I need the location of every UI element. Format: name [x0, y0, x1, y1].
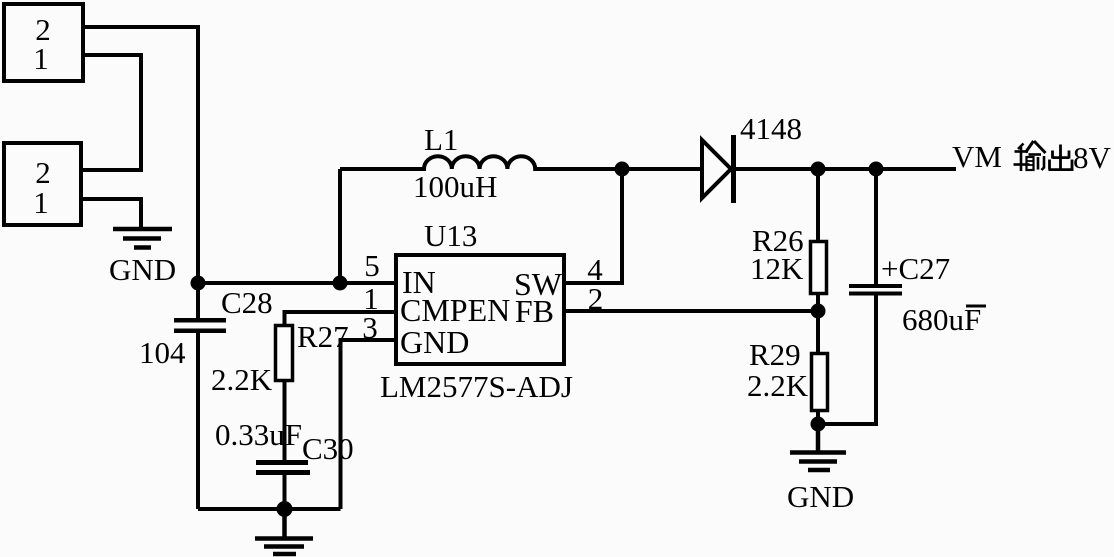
svg-text:1: 1: [33, 41, 49, 76]
wire bottom rail: [198, 507, 341, 511]
capacitor C28 leads: [196, 283, 200, 509]
node D junction R29/C27: [811, 417, 826, 432]
svg-text:GND: GND: [109, 252, 176, 287]
svg-text:0.33uF: 0.33uF: [215, 417, 302, 452]
wire node B to diode anode: [622, 167, 702, 171]
svg-text:3: 3: [362, 310, 378, 345]
wire SW leg from node B down to U13 SW pin: [566, 169, 622, 283]
svg-text:1: 1: [33, 185, 49, 220]
capacitor C27 plates: [849, 284, 902, 288]
output label chinese 输: [1014, 141, 1046, 171]
resistor R27 lead from CMPEN pin wire: [285, 312, 395, 325]
svg-text:GND: GND: [400, 324, 469, 360]
svg-text:VM: VM: [952, 139, 1002, 174]
svg-text:+C27: +C27: [881, 251, 950, 286]
node E junction bottom rail: [277, 501, 293, 517]
diode D1 4148: [702, 140, 731, 198]
svg-text:2.2K: 2.2K: [211, 362, 273, 397]
connector P1 (top-left box): [4, 4, 83, 81]
svg-text:4148: 4148: [740, 111, 802, 146]
node junction output/C27: [869, 162, 884, 177]
IC U13 body: [396, 255, 564, 364]
inductor L1: [340, 156, 622, 169]
ground GND3 (bottom, clipped): [255, 509, 313, 554]
svg-text:C28: C28: [221, 285, 273, 320]
svg-text:2: 2: [588, 281, 604, 316]
wire L1 left leg: [338, 169, 342, 283]
node junction IN/L1: [333, 276, 348, 291]
wire IN rail node A to U13: [198, 281, 394, 285]
svg-text:FB: FB: [515, 293, 554, 329]
resistor R27 body: [276, 326, 293, 381]
resistor R29 leads: [816, 311, 820, 424]
node junction output/R26: [811, 162, 826, 177]
wire U13 GND pin3 down to bottom rail: [341, 340, 395, 509]
node B junction: [615, 162, 630, 177]
capacitor C27 top lead: [874, 169, 878, 285]
svg-text:8V: 8V: [1073, 140, 1112, 175]
svg-text:R27: R27: [297, 319, 349, 354]
svg-text:LM2577S-ADJ: LM2577S-ADJ: [380, 369, 573, 404]
svg-text:100uH: 100uH: [413, 169, 497, 204]
wire P1 pin1 to P2 pin2: [83, 55, 141, 170]
svg-text:U13: U13: [424, 218, 477, 253]
ground GND2: [790, 424, 846, 470]
node C junction FB: [811, 304, 826, 319]
overline on F of 680uF: [966, 305, 986, 308]
svg-text:CMPEN: CMPEN: [400, 292, 510, 328]
wire FB from U13 to node C: [566, 309, 818, 313]
svg-text:GND: GND: [787, 479, 854, 514]
ground GND1: [113, 229, 172, 248]
capacitor C30 plates: [256, 460, 308, 465]
svg-text:L1: L1: [424, 122, 458, 157]
capacitor C28 plates: [174, 318, 226, 323]
svg-text:C30: C30: [302, 431, 354, 466]
resistor R29 body: [812, 354, 828, 411]
svg-text:5: 5: [364, 248, 380, 283]
wire P2 pin1 to ground: [83, 199, 141, 227]
resistor R26 leads: [816, 169, 820, 311]
svg-text:R29: R29: [749, 337, 801, 372]
wire P1 pin2 to node A vertical: [85, 27, 198, 283]
node A junction: [191, 276, 206, 291]
resistor R26 body: [811, 242, 827, 294]
wire diode cathode to output: [735, 167, 956, 171]
connector P2 (lower-left box): [4, 143, 81, 225]
svg-text:2.2K: 2.2K: [747, 368, 809, 403]
svg-text:104: 104: [139, 335, 186, 370]
wire node D to capacitor C27 bottom: [818, 294, 876, 424]
capacitor C30 leads: [283, 381, 287, 509]
svg-text:12K: 12K: [750, 251, 804, 286]
output label chinese 出: [1049, 145, 1074, 170]
